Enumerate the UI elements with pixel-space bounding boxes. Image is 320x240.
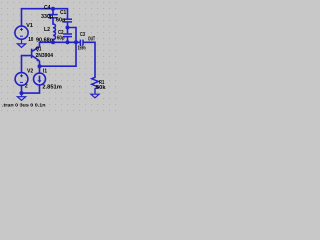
wire out segment [84,42,95,77]
svg-text:10: 10 [28,37,33,43]
wire top rail [22,9,68,26]
voltage source V2 [15,73,28,86]
svg-text:C3: C3 [80,32,85,38]
svg-text:C1: C1 [60,10,67,16]
inductor L2 [53,24,55,40]
svg-text:C4: C4 [44,5,51,11]
wire C4-L2 lead [52,18,54,24]
svg-text:2.851m: 2.851m [42,85,62,91]
capacitor C2 [63,34,72,37]
capacitor C1 [63,19,72,22]
svg-text:90.68n: 90.68n [36,38,53,44]
resistor R1 [92,77,99,93]
svg-text:330p: 330p [41,14,53,20]
wire collector bus [40,41,80,43]
wire C2 bottom [67,37,69,42]
ground (bottom rail) [17,93,25,100]
ground (below V1) [17,39,25,47]
svg-text:Q1: Q1 [36,46,42,52]
wire C4 top lead [52,9,54,14]
wire base [22,56,31,73]
svg-text:60p: 60p [56,18,65,24]
wire V2 bottom to ground rail [22,85,40,93]
wire I1 top lead [39,66,41,73]
wire L2 bottom lead [52,40,54,43]
svg-text:L2: L2 [44,27,50,33]
capacitor C3 [80,40,83,46]
svg-text:I1: I1 [43,68,47,74]
wire tap to emitter riser [40,28,77,67]
svg-text:2: 2 [25,83,28,89]
current source I1 [34,73,46,85]
svg-text:60p: 60p [57,35,65,41]
svg-text:OUT: OUT [88,37,95,43]
ground (below R1) [91,94,99,98]
svg-text:50k: 50k [96,85,106,91]
junction dots [20,7,79,95]
capacitor C4 [48,15,57,18]
svg-text:159n: 159n [78,46,86,52]
svg-text:V2: V2 [27,69,33,75]
svg-text:.tran 0 3us 0 0.1n: .tran 0 3us 0 0.1n [2,103,46,108]
svg-text:V1: V1 [26,23,33,29]
transistor Q1 [32,42,40,66]
background [0,0,120,113]
svg-text:2N3904: 2N3904 [36,53,54,59]
wire C1 to C2 [67,23,69,33]
voltage source V1 [15,26,28,39]
